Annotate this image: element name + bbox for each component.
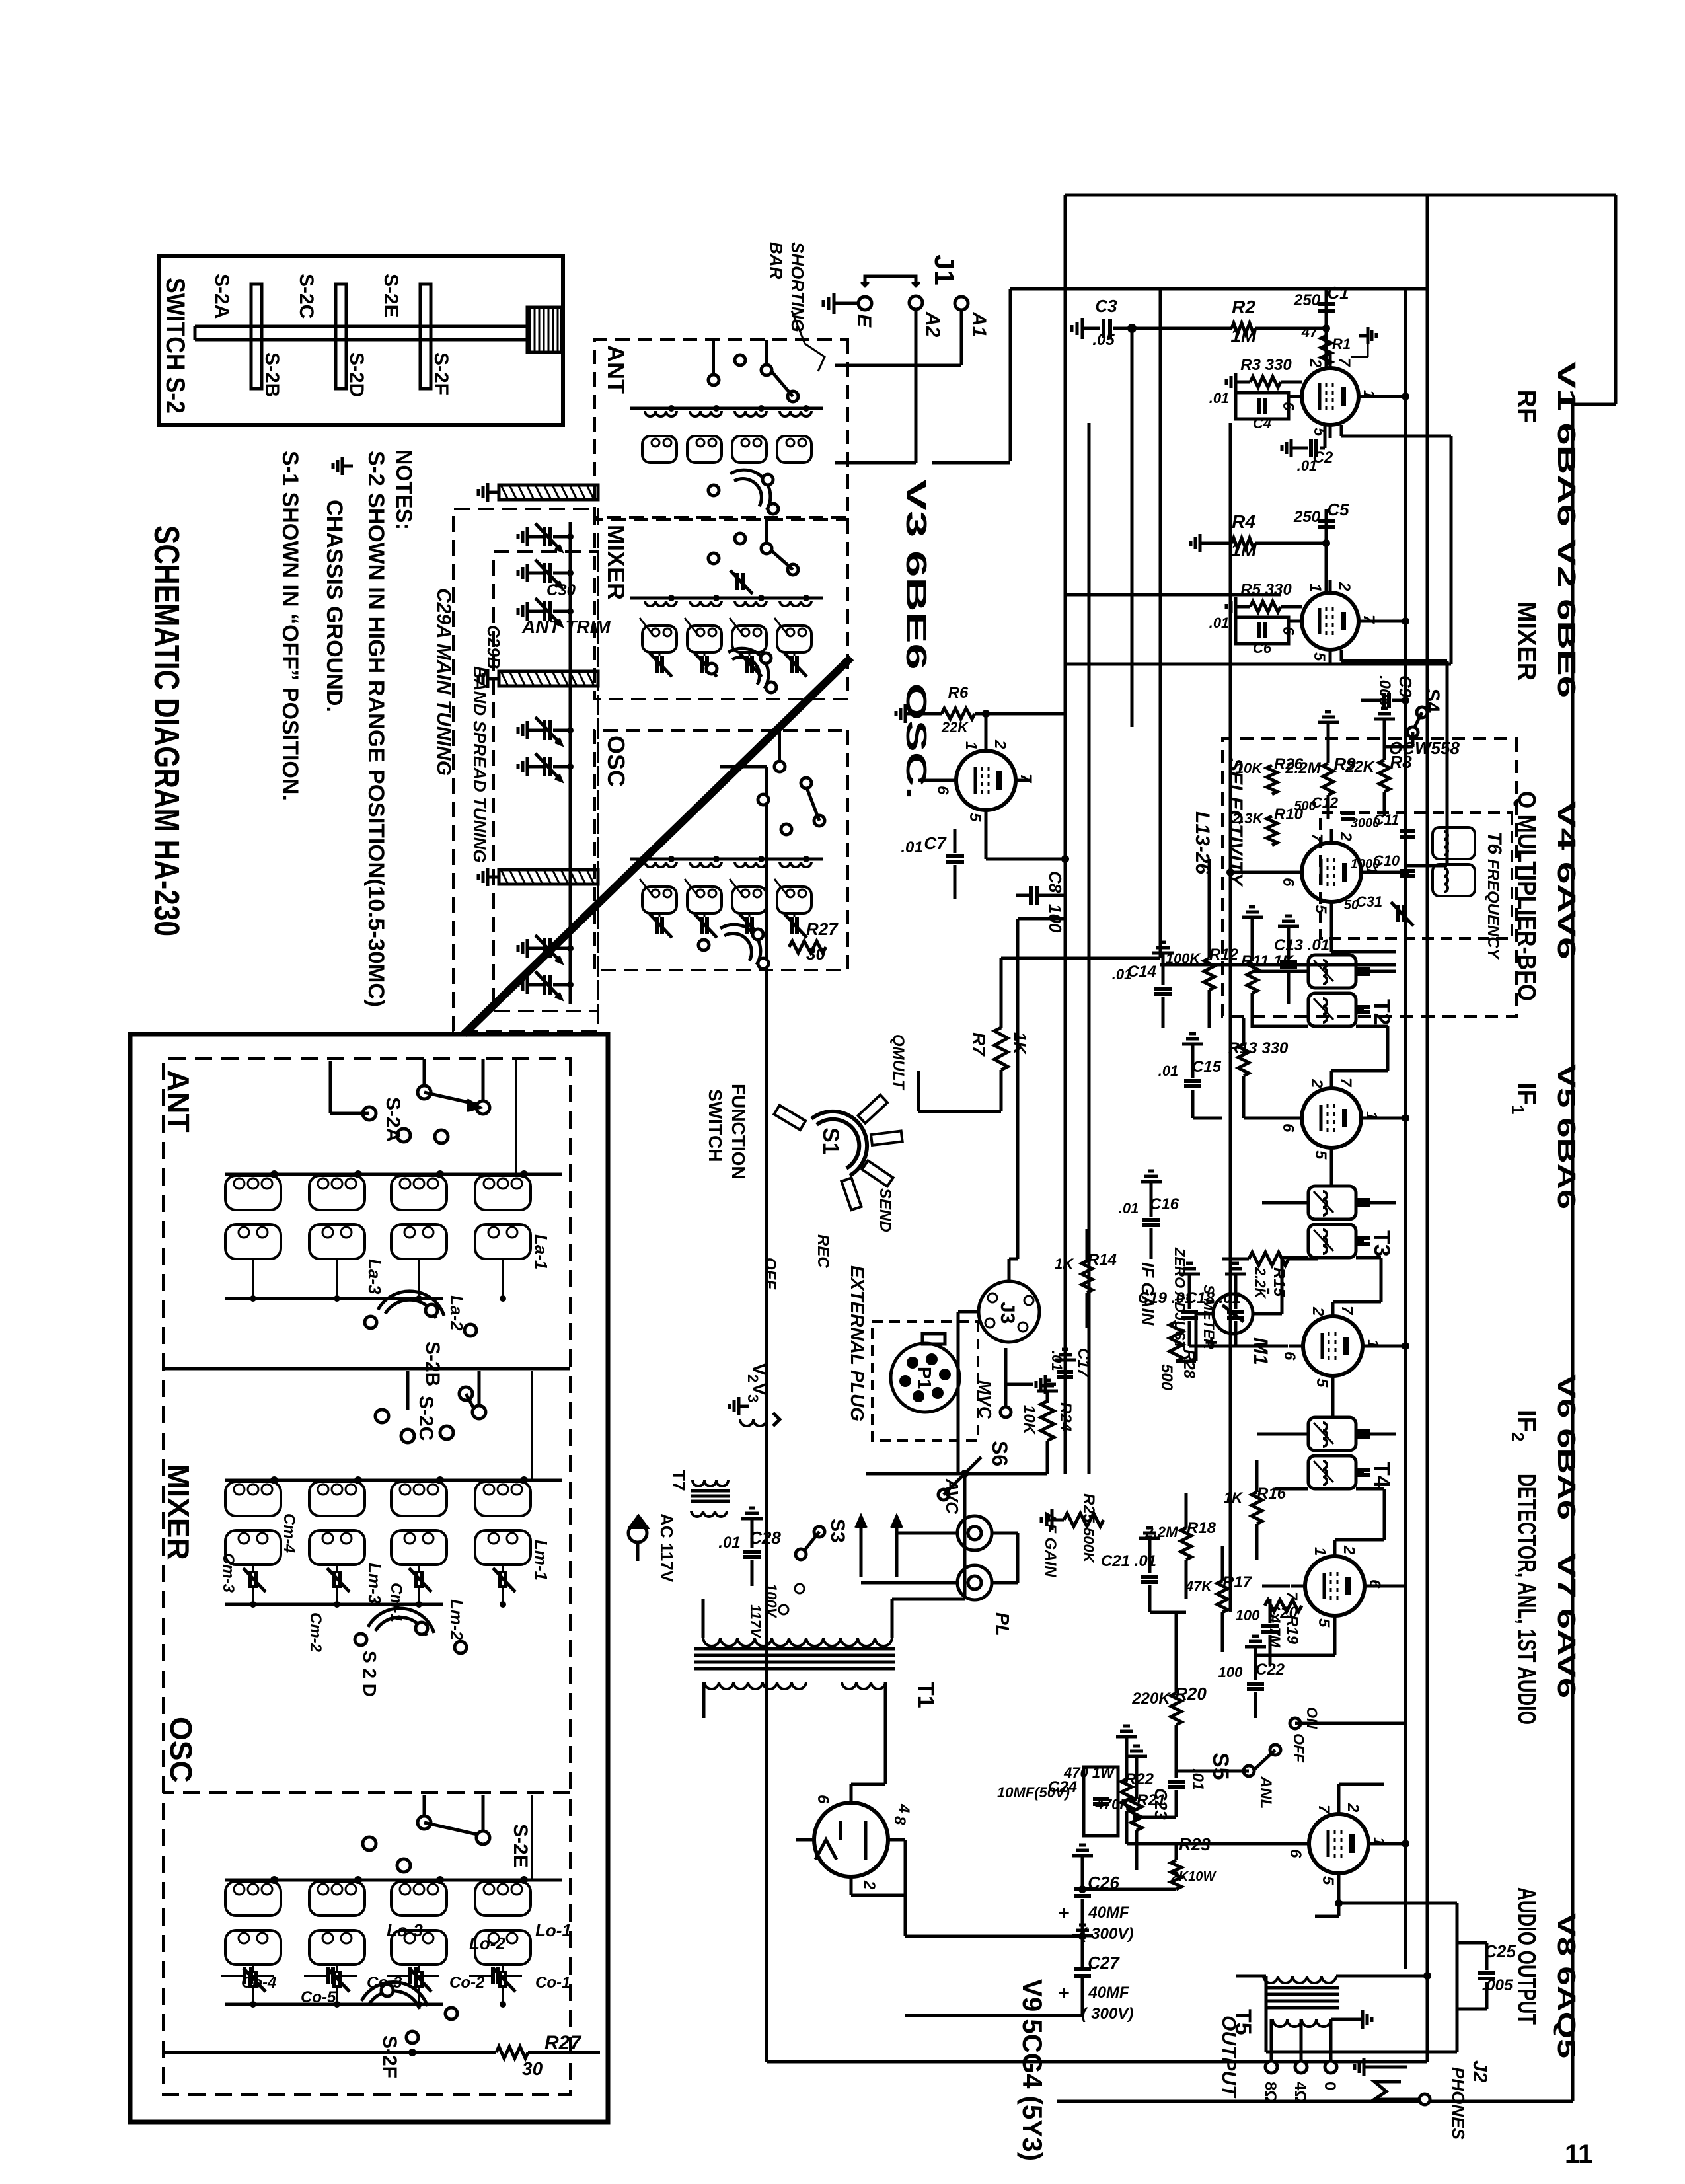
switch wafer S-2A S-2B — [211, 274, 283, 397]
svg-text:1K: 1K — [1224, 1489, 1244, 1506]
svg-text:P1: P1 — [915, 1367, 935, 1389]
wire AVC bus — [1229, 423, 1232, 1612]
wire V6 links — [1189, 1302, 1409, 1417]
notes heading — [391, 449, 416, 530]
tube V6 6BA6 IF2 — [1281, 1303, 1382, 1389]
switch shaft — [195, 326, 527, 340]
switch S-2 mechanical box — [159, 256, 563, 425]
note S-2 — [363, 451, 389, 1007]
svg-text:1: 1 — [1508, 1105, 1528, 1114]
svg-text:C29A MAIN TUNING: C29A MAIN TUNING — [433, 588, 455, 776]
label stage RF — [1513, 390, 1540, 424]
wire right top link — [1057, 404, 1573, 2101]
svg-text:C13 .01: C13 .01 — [1274, 936, 1329, 954]
svg-text:R17: R17 — [1222, 1573, 1253, 1591]
svg-text:MIXER: MIXER — [1513, 601, 1540, 681]
svg-text:S5: S5 — [1208, 1752, 1233, 1780]
svg-text:30: 30 — [806, 944, 825, 963]
svg-text:C15: C15 — [1192, 1058, 1222, 1076]
svg-text:.01: .01 — [1119, 1200, 1139, 1217]
wire mixer plate run — [1065, 593, 1281, 597]
svg-text:40ΜF: 40ΜF — [1088, 1904, 1130, 1922]
wire mid join — [1160, 963, 1396, 967]
jack J2 PHONES — [1355, 2058, 1491, 2140]
tuning gang shaft 2 — [478, 669, 598, 688]
dashed box ANT band coils — [595, 340, 848, 517]
label V2V3 heater — [730, 1363, 780, 1426]
svg-text:R3 330: R3 330 — [1240, 356, 1292, 374]
wire ANT detail stubs — [424, 1059, 516, 1174]
svg-text:5: 5 — [1315, 1618, 1333, 1628]
svg-text:V7 6AV6: V7 6AV6 — [1552, 1553, 1580, 1698]
label stage AUDIO OUTPUT — [1513, 1887, 1540, 2025]
dashed box T6 BFO — [1320, 813, 1512, 938]
svg-text:La-1: La-1 — [531, 1234, 551, 1269]
svg-text:C1: C1 — [1327, 283, 1349, 303]
svg-text:250: 250 — [1293, 291, 1321, 309]
svg-text:.01: .01 — [1209, 615, 1230, 631]
svg-text:5: 5 — [1312, 905, 1329, 914]
wire V2 screen — [1373, 617, 1409, 625]
variable capacitor C29 group 1 — [518, 523, 574, 626]
wire B+ bottom run — [720, 767, 1427, 2062]
svg-text:R25: R25 — [1080, 1493, 1098, 1523]
label tube V7 6AV6 — [1552, 1553, 1580, 1698]
tuning gang shaft 3 — [478, 868, 598, 886]
wire heater bus — [1088, 423, 1091, 1474]
svg-text:R18: R18 — [1187, 1519, 1217, 1537]
wire V1 screen — [1373, 393, 1409, 400]
resistor R28 500 zero adjust — [1158, 1247, 1198, 1391]
variable capacitor C29 group 2 — [518, 717, 574, 781]
svg-text:S-2A: S-2A — [382, 1097, 404, 1142]
dashed divider MIXER OSC — [163, 1791, 570, 1794]
svg-text:C28: C28 — [749, 1528, 781, 1548]
label OCW558 — [1389, 738, 1460, 758]
svg-text:5: 5 — [1313, 1378, 1331, 1388]
capacitor C21 .01 — [1101, 1528, 1160, 1612]
label tube V2 6BE6 — [1552, 539, 1580, 698]
svg-text:500K: 500K — [1080, 1528, 1097, 1564]
switch S-2C contacts — [330, 1387, 486, 1443]
svg-text:Lm-3: Lm-3 — [365, 1563, 385, 1604]
capacitor C27 40uF 300V — [1053, 1925, 1133, 2023]
OSC bus with R27 — [163, 2032, 600, 2095]
svg-text:C31: C31 — [1356, 893, 1382, 910]
svg-text:SCHEMATIC DIAGRAM HA-230: SCHEMATIC DIAGRAM HA-230 — [147, 525, 186, 936]
jack J1 terminal A1 — [955, 297, 990, 337]
svg-text:R13 330: R13 330 — [1228, 1039, 1289, 1057]
svg-text:SHORTING: SHORTING — [788, 242, 807, 332]
resistor R26 10K — [1236, 755, 1304, 794]
svg-text:R26: R26 — [1274, 755, 1304, 773]
transformer T7 — [669, 1470, 730, 1517]
svg-text:R27: R27 — [544, 2032, 581, 2054]
wire T2 links — [1252, 971, 1396, 1071]
T5 secondary taps — [1261, 2010, 1372, 2103]
label SELECTIVITY — [1224, 758, 1246, 887]
svg-text:Lo-2: Lo-2 — [469, 1934, 505, 1953]
svg-text:7: 7 — [1335, 358, 1353, 367]
svg-text:La-3: La-3 — [365, 1259, 385, 1295]
svg-text:S1: S1 — [818, 1127, 843, 1155]
svg-text:( 300V): ( 300V) — [1082, 2005, 1134, 2023]
capacitor C3 .05 — [1072, 296, 1137, 349]
label V9 5CG4 5Y3 — [1017, 1979, 1048, 2161]
resistor R17 47K — [1185, 1546, 1253, 1652]
svg-text:2: 2 — [1309, 1306, 1327, 1316]
svg-text:7: 7 — [1338, 1306, 1356, 1316]
resistor R27 30 ohm upper — [789, 919, 839, 963]
svg-text:2.3K: 2.3K — [1232, 810, 1265, 827]
svg-text:C7: C7 — [924, 833, 947, 853]
svg-text:+: + — [1053, 1907, 1074, 1919]
capacitor C6 .01 — [1209, 615, 1289, 656]
label ANT detail — [161, 1070, 196, 1133]
svg-text:10K: 10K — [1236, 760, 1263, 776]
svg-text:NOTES:: NOTES: — [391, 449, 416, 530]
wire MIXER detail stubs — [408, 1371, 532, 1480]
svg-text:R9: R9 — [1333, 754, 1356, 774]
wire S5 run — [1176, 1723, 1405, 1771]
label MIXER detail — [161, 1464, 196, 1560]
svg-text:C22: C22 — [1255, 1661, 1285, 1678]
label tube V8 6AQ5 — [1552, 1913, 1580, 2058]
svg-text:MIXER: MIXER — [603, 525, 630, 600]
svg-text:IF: IF — [1513, 1082, 1540, 1105]
svg-text:.01: .01 — [1209, 390, 1230, 406]
svg-text:R21: R21 — [1137, 1791, 1166, 1809]
resistor R12 100K — [1166, 859, 1239, 1028]
ANT detail coil stack La-1 La-2 La-3 — [225, 1170, 562, 1302]
resistor R4 1M — [1191, 511, 1326, 560]
svg-text:22K: 22K — [941, 719, 969, 735]
svg-text:+: + — [1053, 1987, 1074, 1999]
svg-text:ANT: ANT — [161, 1070, 196, 1133]
svg-text:5: 5 — [1312, 1150, 1329, 1160]
svg-text:2: 2 — [1306, 358, 1324, 368]
svg-text:7: 7 — [1315, 1805, 1333, 1815]
svg-text:4.7M: 4.7M — [1267, 1614, 1283, 1648]
wire V2 grid line — [1322, 509, 1330, 593]
label J1 — [929, 254, 960, 285]
trimmer C30 and label — [546, 570, 753, 599]
label SHORTING BAR — [767, 242, 825, 371]
resistor R20 220K — [1131, 1612, 1207, 1771]
svg-text:V6 6BA6: V6 6BA6 — [1552, 1374, 1580, 1520]
svg-text:R12: R12 — [1209, 946, 1239, 963]
resistor R2 1M — [1132, 297, 1326, 346]
capacitor C28 .01 — [718, 1508, 781, 1586]
switch S-2A upper contacts — [708, 355, 798, 402]
svg-text:5: 5 — [966, 813, 984, 822]
svg-text:IF: IF — [1513, 1410, 1540, 1432]
resistor R1 47 — [1301, 324, 1351, 365]
variable capacitor C29 group 3 — [518, 935, 574, 999]
resistor R23 2K 10W — [1078, 1834, 1217, 1893]
svg-text:A1: A1 — [968, 311, 990, 337]
svg-text:R7: R7 — [969, 1032, 989, 1057]
label tube V1 6BA6 — [1552, 361, 1580, 527]
resistor R8 22K — [1345, 708, 1412, 816]
svg-text:T4: T4 — [1369, 1462, 1394, 1488]
switch wafer S-2C S-2D — [295, 274, 367, 397]
power wiring — [704, 1474, 1086, 2015]
wire to J3 bus — [958, 919, 1065, 1478]
dashed box OSC band coils — [595, 730, 848, 970]
svg-text:T6: T6 — [1483, 831, 1505, 854]
tube V5 6BA6 IF1 — [1279, 1075, 1380, 1161]
svg-text:R23: R23 — [1179, 1834, 1211, 1854]
svg-text:C17: C17 — [1074, 1348, 1092, 1378]
svg-text:10ΜF(50V): 10ΜF(50V) — [997, 1784, 1070, 1801]
tube V1 6BA6 RF amplifier — [1279, 355, 1378, 438]
svg-text:T1: T1 — [913, 1682, 938, 1708]
resistor R13 330 — [1228, 1018, 1289, 1118]
wire V8 links — [1127, 1784, 1409, 1916]
svg-text:C8: C8 — [1045, 871, 1065, 893]
svg-text:2: 2 — [1344, 1803, 1362, 1813]
svg-text:R6: R6 — [948, 684, 969, 702]
svg-text:QMULT: QMULT — [889, 1034, 907, 1091]
svg-text:S-2C: S-2C — [295, 274, 317, 319]
resistor R7 1K — [969, 958, 1160, 1111]
switch S-2B arc — [365, 1291, 515, 1386]
BFO coil T6 — [1433, 827, 1475, 896]
MIXER detail labels — [219, 1513, 551, 1653]
svg-text:J3: J3 — [996, 1302, 1018, 1324]
svg-text:R27: R27 — [806, 919, 839, 939]
wire A1 run — [835, 310, 961, 365]
svg-text:1: 1 — [1306, 584, 1324, 592]
svg-text:-: - — [1257, 1287, 1282, 1295]
switch S-2 osc upper contacts — [758, 761, 825, 835]
svg-text:Lm-2: Lm-2 — [447, 1599, 467, 1641]
dashed box MIXER band coils — [595, 519, 848, 699]
svg-text:S-2C: S-2C — [415, 1396, 437, 1441]
page number 11 — [1565, 2140, 1592, 2169]
wire AVC return bus — [1064, 195, 1067, 1474]
OSC detail padder caps Co-1..Co-5 — [221, 1967, 570, 2006]
svg-text:2: 2 — [1335, 582, 1353, 591]
capacitor C19 .01 — [1138, 1263, 1200, 1346]
dashed box SELECTIVITY — [1222, 739, 1516, 1016]
svg-text:R20: R20 — [1175, 1684, 1207, 1704]
wire V4 links — [1226, 868, 1409, 952]
svg-text:11: 11 — [1565, 2140, 1592, 2169]
switch S3 — [796, 1519, 848, 1560]
wire V1 plate — [1065, 425, 1451, 664]
switch S-2B upper arc — [708, 470, 778, 514]
svg-text:S-2F: S-2F — [379, 2035, 400, 2078]
jack J1 terminal E — [853, 297, 875, 328]
capacitor C31 50 — [1344, 893, 1413, 926]
svg-text:V3 6BE6 OSC.: V3 6BE6 OSC. — [900, 479, 932, 800]
svg-text:R14: R14 — [1088, 1251, 1117, 1269]
capacitor C24 10uF 50V — [997, 1778, 1109, 1804]
capacitor C8 100 — [1016, 871, 1065, 933]
label C29B — [484, 625, 504, 669]
svg-text:Cm-3: Cm-3 — [219, 1553, 237, 1593]
svg-text:V4 6AV6: V4 6AV6 — [1552, 801, 1580, 960]
title SCHEMATIC DIAGRAM HA-230 — [147, 525, 186, 936]
shorting bar — [861, 276, 920, 286]
svg-text:6: 6 — [1281, 1351, 1298, 1361]
svg-text:BAR: BAR — [767, 242, 786, 280]
label OUTPUT — [1218, 2015, 1240, 2099]
svg-text:2K10W: 2K10W — [1171, 1869, 1217, 1884]
label SWITCH S-2 — [161, 278, 190, 414]
tube V7 6AV6 detector ANL first audio — [1283, 1543, 1384, 1629]
label IF GAIN — [1138, 1262, 1158, 1326]
note S-1 — [278, 451, 303, 801]
svg-text:5: 5 — [1310, 652, 1328, 661]
dashed box C29A main tuning — [453, 509, 598, 1031]
svg-text:Lo-3: Lo-3 — [387, 1920, 423, 1940]
rotary switch S1 function — [705, 1034, 907, 1290]
svg-text:PL: PL — [992, 1612, 1013, 1636]
label stage DETECTOR ANL 1st AUDIO — [1513, 1474, 1540, 1725]
resistor R24 10K — [1020, 1380, 1074, 1474]
wire T4 links — [1257, 1434, 1396, 1540]
connector J3 — [958, 919, 1039, 1474]
svg-text:PHONES: PHONES — [1448, 2067, 1468, 2140]
external plug P1 — [847, 1265, 978, 1441]
svg-text:S 2 D: S 2 D — [359, 1651, 380, 1697]
svg-text:4Ω: 4Ω — [1291, 2082, 1309, 2103]
resistor R3 330 cathode — [1226, 356, 1302, 391]
svg-text:.05: .05 — [1092, 331, 1115, 349]
label stage Q MULTIPLIER-BFO — [1513, 791, 1540, 1001]
switch S4 — [1384, 689, 1443, 747]
tube V3 6BE6 oscillator — [934, 737, 1035, 823]
svg-text:S-2E: S-2E — [509, 1824, 531, 1868]
wire avc drop — [1131, 330, 1134, 727]
svg-text:7: 7 — [1017, 774, 1035, 784]
svg-text:5: 5 — [1319, 1876, 1337, 1885]
resistor R11 1K — [1241, 907, 1294, 1028]
svg-text:1K: 1K — [1055, 1256, 1074, 1272]
transformer T4 — [1308, 1417, 1394, 1489]
svg-text:S3: S3 — [827, 1519, 848, 1543]
svg-text:1M: 1M — [1231, 325, 1257, 346]
capacitor C26 40uF 300V — [1053, 1845, 1133, 1943]
svg-text:47K: 47K — [1185, 1578, 1213, 1595]
svg-text:Cm-2: Cm-2 — [307, 1612, 324, 1653]
wire S1 to qmult — [918, 1071, 1001, 1111]
svg-text:SWITCH S-2: SWITCH S-2 — [161, 278, 190, 414]
note chassis ground — [322, 457, 353, 712]
svg-text:C9: C9 — [1396, 675, 1415, 698]
capacitor C13 .01 — [1274, 916, 1329, 1004]
svg-text:J1: J1 — [929, 254, 960, 285]
capacitor C25 .005 — [1457, 1941, 1516, 2009]
svg-text:6: 6 — [1279, 878, 1297, 887]
svg-text:V5 6BA6: V5 6BA6 — [1552, 1064, 1580, 1209]
wire heater drop — [866, 1312, 958, 1474]
svg-text:Lm-1: Lm-1 — [531, 1540, 551, 1581]
svg-text:100V: 100V — [763, 1583, 780, 1619]
capacitor C22 100 — [1218, 1636, 1285, 1718]
wire det out — [1150, 1611, 1186, 1614]
svg-text:OUTPUT: OUTPUT — [1218, 2015, 1240, 2099]
transformer T5 output — [1230, 1972, 1431, 2052]
svg-text:Co-2: Co-2 — [449, 1974, 485, 1992]
svg-text:8Ω: 8Ω — [1261, 2082, 1279, 2103]
svg-text:30: 30 — [522, 2058, 543, 2079]
svg-text:CHASSIS GROUND.: CHASSIS GROUND. — [322, 500, 347, 712]
MIXER band coil stack Lm — [630, 595, 823, 677]
svg-text:Lo-1: Lo-1 — [535, 1920, 572, 1940]
wire T3 links — [1262, 1203, 1396, 1302]
capacitor C9 .005 — [1361, 675, 1415, 708]
label C29A MAIN TUNING — [433, 588, 455, 776]
svg-text:S-2E: S-2E — [380, 274, 402, 318]
svg-text:C3: C3 — [1095, 296, 1117, 316]
svg-text:2: 2 — [745, 1374, 761, 1382]
wire V3 links — [918, 714, 1069, 863]
switch S6 AVC MVC — [938, 1348, 1056, 1515]
svg-text:4: 4 — [895, 1803, 913, 1813]
svg-text:S4: S4 — [1421, 689, 1443, 713]
label ANT TRIM — [521, 617, 611, 637]
capacitor C17 .01 — [1049, 1348, 1092, 1378]
tube V9 5CG4 rectifier — [796, 1784, 913, 1895]
resistor R22 470 1W — [1063, 1726, 1154, 1844]
svg-text:.01: .01 — [901, 839, 922, 856]
tuning gang shaft 1 — [478, 483, 598, 502]
capacitor C2 .01 — [1282, 426, 1333, 474]
svg-text:S-1 SHOWN IN “OFF” POSITION: S-1 SHOWN IN “OFF” POSITION. — [278, 451, 303, 801]
svg-text:8: 8 — [891, 1816, 909, 1825]
ANT detail labels — [365, 1234, 551, 1331]
svg-text:OFF: OFF — [1291, 1733, 1307, 1763]
svg-text:R24: R24 — [1057, 1402, 1074, 1431]
label stage IF1 — [1508, 1082, 1540, 1114]
capacitor C11 3000 — [1351, 811, 1415, 837]
label BAND SPREAD TUNING — [470, 666, 490, 863]
svg-text:Co-1: Co-1 — [535, 1974, 570, 1992]
wire meter links — [1176, 1259, 1282, 1361]
wire top left corner — [1065, 195, 1616, 404]
dashed box C29B band spread — [494, 552, 598, 1011]
label tube V3 6BE6 OSC — [900, 479, 932, 800]
switch S-2D upper arc — [706, 648, 776, 693]
svg-text:V: V — [749, 1363, 770, 1376]
tube V2 6BE6 mixer — [1279, 580, 1378, 663]
svg-text:100: 100 — [1218, 1664, 1243, 1680]
svg-text:E: E — [853, 314, 875, 328]
svg-text:AVC: AVC — [942, 1478, 962, 1515]
svg-text:0: 0 — [1321, 2082, 1339, 2090]
svg-text:FUNCTION: FUNCTION — [728, 1084, 749, 1180]
resistor R14 1K — [1055, 1229, 1117, 1328]
dashed divider ANT MIXER — [163, 1367, 570, 1371]
svg-text:1: 1 — [962, 741, 980, 750]
svg-text:C21 .01: C21 .01 — [1101, 1552, 1156, 1570]
svg-text:.01: .01 — [1158, 1063, 1179, 1079]
svg-text:Co-4: Co-4 — [241, 1974, 276, 1992]
label OSC detail — [164, 1717, 198, 1783]
ANT band coil stack La — [630, 405, 823, 463]
svg-text:OSC: OSC — [164, 1717, 198, 1783]
svg-text:BAND SPREAD TUNING: BAND SPREAD TUNING — [470, 666, 490, 863]
svg-text:1K: 1K — [1010, 1032, 1030, 1055]
svg-text:S-2D: S-2D — [346, 352, 367, 397]
svg-text:AC 117V: AC 117V — [657, 1513, 677, 1583]
transformer T1 power — [694, 1599, 938, 1718]
svg-text:R10: R10 — [1274, 806, 1304, 823]
